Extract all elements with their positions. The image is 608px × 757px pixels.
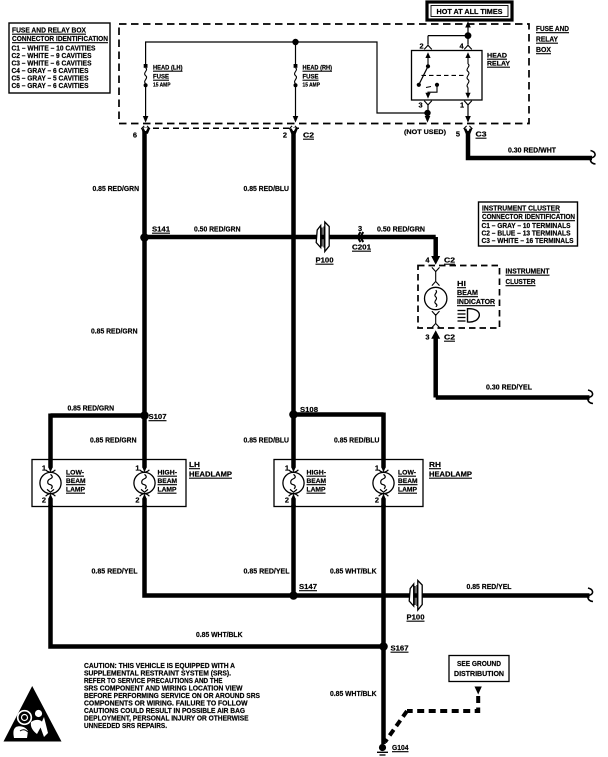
power source label HOT AT ALL TIMES bbox=[427, 2, 512, 20]
svg-text:HIGH-: HIGH- bbox=[158, 470, 178, 477]
wire: cluster pin 3 C2 output bbox=[425, 330, 455, 397]
svg-text:1: 1 bbox=[460, 101, 464, 110]
lamp: HI BEAM INDICATOR bbox=[425, 267, 496, 327]
label: INSTRUMENT CLUSTER bbox=[506, 267, 550, 287]
connector pin 6 (LH headlamp feed) bbox=[133, 126, 150, 140]
svg-text:0.85 WHT/BLK: 0.85 WHT/BLK bbox=[330, 567, 377, 576]
svg-text:C2: C2 bbox=[303, 131, 314, 140]
svg-text:C3: C3 bbox=[476, 130, 487, 139]
svg-text:CONNECTOR IDENTIFICATION: CONNECTOR IDENTIFICATION bbox=[12, 34, 108, 43]
svg-text:HIGH-: HIGH- bbox=[307, 470, 327, 477]
wire: battery feed from HOT AT ALL TIMES to relay pins 2 and 4 bbox=[428, 21, 471, 44]
connector P100 (lower) bbox=[407, 581, 425, 622]
relay: HEAD RELAY bbox=[412, 42, 511, 110]
svg-text:0.85 RED/YEL: 0.85 RED/YEL bbox=[244, 567, 290, 576]
connector P100 (upper) bbox=[316, 222, 334, 265]
svg-text:4: 4 bbox=[459, 42, 464, 51]
component box: RH HEADLAMP bbox=[274, 460, 472, 507]
lamp: LH HIGH-BEAM LAMP bbox=[134, 460, 178, 508]
svg-text:15 AMP: 15 AMP bbox=[303, 83, 321, 89]
svg-text:HOT AT ALL TIMES: HOT AT ALL TIMES bbox=[437, 7, 503, 16]
lamp: LH LOW-BEAM LAMP bbox=[40, 460, 86, 508]
wire: fuse feed bus bbox=[146, 39, 428, 113]
svg-text:BOX: BOX bbox=[536, 45, 551, 54]
wire: relay pin 3 (NOT USED) bbox=[404, 105, 446, 136]
connector pin 2 C2 (RH headlamp feed) bbox=[283, 126, 314, 140]
svg-text:LAMP: LAMP bbox=[66, 487, 86, 494]
svg-text:0.85 RED/BLU: 0.85 RED/BLU bbox=[244, 436, 290, 445]
svg-text:3: 3 bbox=[418, 101, 422, 110]
wire: 0.30 RED/WHT from relay pin 5 C3 bbox=[468, 131, 596, 164]
svg-text:BEAM: BEAM bbox=[66, 478, 86, 485]
svg-text:2: 2 bbox=[42, 496, 46, 505]
svg-text:FUSE: FUSE bbox=[153, 74, 170, 81]
svg-text:INSTRUMENT: INSTRUMENT bbox=[506, 267, 550, 276]
component box: LH HEADLAMP bbox=[32, 460, 232, 507]
svg-text:BEAM: BEAM bbox=[457, 288, 478, 297]
svg-text:C2: C2 bbox=[444, 333, 455, 342]
svg-text:BEAM: BEAM bbox=[158, 478, 178, 485]
svg-text:0.50 RED/GRN: 0.50 RED/GRN bbox=[377, 225, 425, 234]
svg-text:0.85 RED/BLU: 0.85 RED/BLU bbox=[334, 436, 380, 445]
label: FUSE AND RELAY BOX bbox=[536, 24, 570, 54]
svg-text:HEADLAMP: HEADLAMP bbox=[189, 470, 232, 479]
svg-text:1: 1 bbox=[42, 464, 46, 473]
svg-text:2: 2 bbox=[283, 131, 287, 140]
svg-text:2: 2 bbox=[419, 42, 423, 51]
svg-text:0.85 WHT/BLK: 0.85 WHT/BLK bbox=[330, 689, 377, 698]
svg-text:P100: P100 bbox=[316, 256, 334, 265]
svg-text:2: 2 bbox=[135, 496, 139, 505]
connector C201 pin 3 bbox=[352, 224, 425, 252]
wire: LH fuse output to connector 6 bbox=[143, 87, 149, 123]
svg-text:1: 1 bbox=[135, 464, 139, 473]
wire: relay pin 1 output bbox=[465, 105, 471, 123]
svg-text:1: 1 bbox=[375, 464, 379, 473]
svg-text:(NOT USED): (NOT USED) bbox=[404, 129, 446, 136]
svg-text:0.85 RED/GRN: 0.85 RED/GRN bbox=[93, 184, 140, 193]
connector pin 5 C3 (relay output) bbox=[456, 126, 487, 139]
text: SRS caution note bbox=[84, 661, 260, 730]
junction S107 and branch to LH low-beam bbox=[51, 404, 167, 472]
connector face dashed line bbox=[143, 127, 302, 129]
svg-text:S108: S108 bbox=[300, 405, 318, 414]
svg-text:2: 2 bbox=[285, 496, 289, 505]
wire: 0.30 RED/YEL to right bbox=[436, 383, 593, 404]
svg-text:LAMP: LAMP bbox=[158, 487, 178, 494]
svg-text:S167: S167 bbox=[391, 644, 409, 653]
svg-text:0.85 RED/YEL: 0.85 RED/YEL bbox=[467, 582, 512, 591]
svg-text:CLUSTER: CLUSTER bbox=[506, 277, 537, 286]
svg-text:0.50 RED/GRN: 0.50 RED/GRN bbox=[194, 225, 241, 234]
svg-text:LAMP: LAMP bbox=[307, 487, 327, 494]
svg-text:DISTRIBUTION: DISTRIBUTION bbox=[454, 669, 504, 678]
reference box: SEE GROUND DISTRIBUTION bbox=[449, 656, 509, 695]
svg-text:FUSE: FUSE bbox=[303, 74, 320, 81]
svg-text:0.85 RED/GRN: 0.85 RED/GRN bbox=[68, 404, 115, 413]
svg-text:BEAM: BEAM bbox=[307, 478, 327, 485]
svg-text:RELAY: RELAY bbox=[536, 35, 558, 44]
junction S167 bbox=[379, 642, 408, 652]
fuse: HEAD (RH) FUSE 15 AMP bbox=[294, 64, 333, 89]
svg-text:BEAM: BEAM bbox=[398, 478, 418, 485]
svg-text:1: 1 bbox=[285, 464, 289, 473]
lamp: RH LOW-BEAM LAMP bbox=[373, 460, 418, 508]
wire: 0.85 WHT/BLK from LH low-beam to S167 bbox=[51, 505, 384, 647]
wire: RH fuse output to connector 2 C2 bbox=[293, 87, 299, 123]
svg-text:SEE GROUND: SEE GROUND bbox=[457, 659, 502, 668]
wire (dashed): to ground distribution bbox=[385, 696, 478, 742]
svg-text:UNNEEDED SRS REPAIRS.: UNNEEDED SRS REPAIRS. bbox=[84, 721, 167, 730]
svg-text:15 AMP: 15 AMP bbox=[153, 83, 171, 89]
wire: 0.85 RED/BLU RH main vertical bbox=[244, 131, 294, 471]
svg-text:4: 4 bbox=[425, 256, 430, 265]
cluster connector pin 4 C2 bbox=[425, 256, 455, 265]
svg-text:3: 3 bbox=[358, 224, 362, 233]
svg-text:0.85 RED/GRN: 0.85 RED/GRN bbox=[90, 436, 137, 445]
svg-text:6: 6 bbox=[133, 131, 137, 140]
legend: instrument cluster connector identification bbox=[479, 202, 578, 246]
fuse and relay box (dashed outline) bbox=[119, 24, 529, 124]
lamp: RH HIGH-BEAM LAMP bbox=[283, 460, 327, 508]
wire: 0.85 RED/GRN LH main vertical bbox=[91, 131, 145, 471]
svg-text:P100: P100 bbox=[407, 613, 425, 622]
wire: 0.85 WHT/BLK from RH low-beam to G104 bbox=[330, 505, 384, 744]
svg-text:0.85 RED/BLU: 0.85 RED/BLU bbox=[244, 184, 290, 193]
svg-text:LOW-: LOW- bbox=[66, 470, 84, 477]
svg-text:C3 – WHITE – 16 TERMINALS: C3 – WHITE – 16 TERMINALS bbox=[482, 236, 574, 245]
icon: SRS airbag warning triangle bbox=[4, 686, 62, 742]
legend: fuse and relay box connector identification bbox=[9, 23, 110, 93]
svg-text:LH: LH bbox=[189, 460, 200, 469]
svg-text:HEADLAMP: HEADLAMP bbox=[429, 470, 472, 479]
svg-text:0.85 WHT/BLK: 0.85 WHT/BLK bbox=[196, 630, 243, 639]
svg-text:5: 5 bbox=[456, 130, 460, 139]
svg-text:RH: RH bbox=[429, 460, 441, 469]
svg-text:0.30 RED/YEL: 0.30 RED/YEL bbox=[486, 383, 532, 392]
svg-text:CONNECTOR IDENTIFICATION: CONNECTOR IDENTIFICATION bbox=[482, 212, 575, 221]
svg-text:FUSE AND: FUSE AND bbox=[536, 24, 570, 33]
svg-text:3: 3 bbox=[425, 333, 429, 342]
svg-text:INDICATOR: INDICATOR bbox=[457, 297, 496, 306]
wire: 0.85 RED/YEL from RH high-beam to S147 bbox=[244, 505, 294, 596]
icon: headlight beam bbox=[458, 309, 480, 322]
svg-text:S107: S107 bbox=[149, 412, 167, 421]
svg-text:G104: G104 bbox=[392, 743, 409, 752]
wire: 0.50 RED/GRN from S141 to instrument cluster bbox=[145, 237, 441, 265]
svg-text:S147: S147 bbox=[299, 582, 317, 591]
svg-text:0.85 RED/YEL: 0.85 RED/YEL bbox=[92, 567, 138, 576]
junction S141 bbox=[140, 225, 240, 242]
svg-text:C6 – GRAY – 6 CAVITIES: C6 – GRAY – 6 CAVITIES bbox=[12, 81, 89, 90]
junction S147 and wire 0.85 RED/YEL to right bbox=[289, 582, 593, 602]
svg-text:LAMP: LAMP bbox=[398, 487, 418, 494]
svg-text:HEAD (LH): HEAD (LH) bbox=[153, 65, 183, 72]
wire: 0.85 RED/YEL from LH high-beam to S147 bbox=[92, 505, 294, 596]
svg-text:HEAD: HEAD bbox=[487, 53, 507, 60]
svg-text:S141: S141 bbox=[152, 225, 170, 234]
svg-text:HEAD (RH): HEAD (RH) bbox=[303, 65, 333, 72]
fuse: HEAD (LH) FUSE 15 AMP bbox=[144, 64, 183, 89]
ground G104 bbox=[377, 743, 409, 755]
svg-text:2: 2 bbox=[375, 496, 379, 505]
svg-text:C2: C2 bbox=[444, 256, 455, 265]
svg-text:HI: HI bbox=[457, 279, 466, 288]
junction S108 and branch to RH low-beam bbox=[244, 405, 384, 471]
svg-text:RELAY: RELAY bbox=[487, 61, 510, 68]
svg-text:0.30 RED/WHT: 0.30 RED/WHT bbox=[508, 146, 556, 155]
instrument cluster (dashed outline) bbox=[418, 266, 500, 329]
svg-text:LOW-: LOW- bbox=[398, 470, 416, 477]
svg-text:0.85 RED/GRN: 0.85 RED/GRN bbox=[91, 327, 138, 336]
svg-text:C201: C201 bbox=[352, 243, 371, 252]
